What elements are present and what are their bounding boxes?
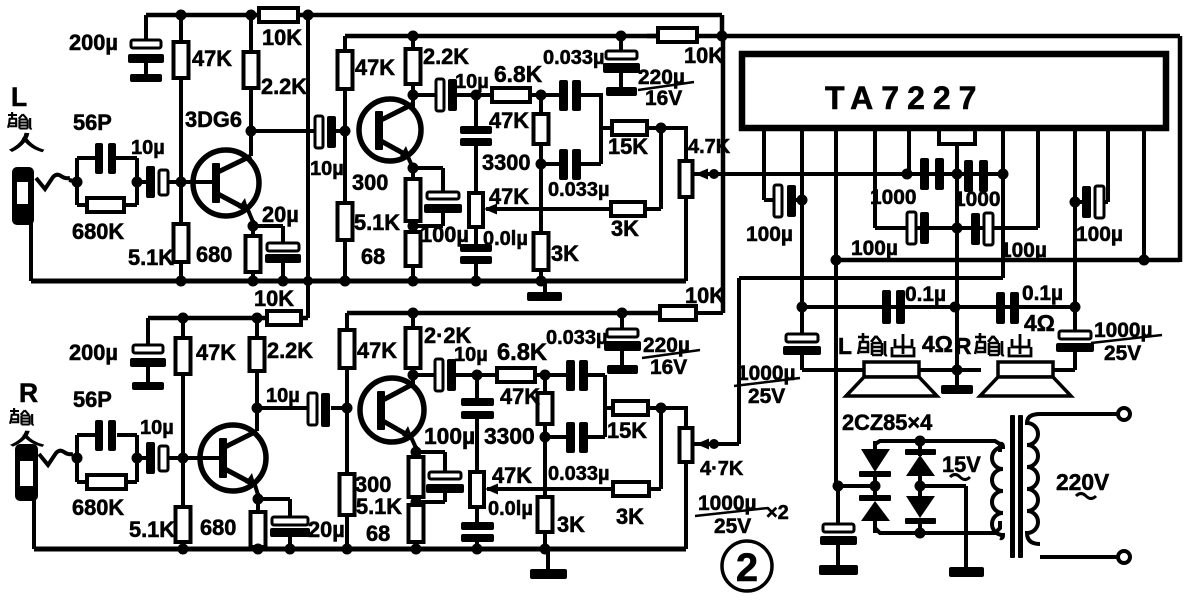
junction emitter node L1 [248, 221, 259, 232]
wire: R input RC left branch [75, 435, 79, 482]
wire: 20u to ground [281, 263, 285, 281]
ground (R 200u) [132, 382, 164, 390]
wire: pot wiper feedback line R [487, 487, 614, 491]
svg-text:200µ: 200µ [69, 30, 118, 55]
resistor 10K (L2 supply) [647, 34, 1180, 39]
svg-text:3K: 3K [551, 241, 579, 266]
resistor 680 (R emitter) [251, 512, 266, 547]
resistor 68 (L2 emitter) [406, 232, 421, 266]
wire: 47K bias column [179, 15, 183, 45]
wire: 3300 column top R [475, 375, 479, 400]
arrow on R output line [696, 439, 709, 450]
svg-text:220V: 220V [1056, 469, 1110, 495]
svg-text:47K: 47K [500, 384, 540, 409]
resistor 47K (R bias upper) [176, 338, 191, 374]
svg-text:20µ: 20µ [262, 202, 299, 227]
wire: 2.2K collector column [249, 15, 253, 52]
svg-text:25V: 25V [714, 515, 751, 538]
svg-text:10K: 10K [262, 25, 302, 50]
wire: 2.2K to collector R2 [411, 368, 415, 387]
terminal top (220V) [1118, 408, 1130, 420]
wire: pot wiper feedback line [486, 207, 612, 211]
capacitor 10u (L2 output) [436, 79, 444, 111]
wire: 15K to output node [647, 126, 688, 130]
wire: 3300 to pot R [475, 419, 479, 474]
junction base node R1 [178, 453, 189, 464]
resistor 300 (L2 emitter) [406, 179, 421, 221]
capacitor 10u (L input) [146, 166, 155, 198]
wire: +V top rail right section corner [1178, 36, 1183, 262]
resistor 15K (L feedback) [612, 121, 647, 135]
capacitor 0.033u no1 (L) [541, 93, 560, 97]
junction bridge + node [833, 481, 844, 492]
svg-text:4·7K: 4·7K [700, 458, 744, 480]
wire: fb caps joining riser [599, 95, 603, 164]
junction node B2 [540, 370, 551, 381]
capacitor 20u (L emitter bypass) [267, 243, 299, 251]
diode D2 [859, 495, 891, 501]
capacitor 0.033u no2 (R) [545, 435, 567, 439]
capacitor 10u (L interstage) [315, 116, 323, 148]
svg-text:680K: 680K [72, 495, 124, 520]
wire: main +V riser [721, 36, 726, 313]
capacitor 10u (R interstage) [308, 393, 317, 425]
junction center/100u pair [952, 223, 963, 234]
svg-text:15K: 15K [608, 134, 648, 159]
svg-text:68: 68 [366, 521, 390, 546]
svg-text:5.1K: 5.1K [356, 494, 402, 519]
junction ground/680 [248, 276, 259, 287]
resistor 4.7K (R output pot) [680, 428, 693, 462]
capacitor 100u (pin1-2) [774, 185, 782, 217]
svg-text:TA7227: TA7227 [825, 80, 984, 116]
svg-text:1000: 1000 [870, 186, 916, 209]
svg-text:100µ: 100µ [424, 423, 475, 449]
wire: 100u link [796, 198, 802, 202]
wire: corner to 4.7K R [684, 408, 688, 430]
wire: 68 to ground R2 [414, 542, 418, 549]
wire: R2 rail to 47K column [345, 313, 349, 332]
svg-text:4Ω: 4Ω [1024, 310, 1055, 336]
wire: 3K to output node riser [645, 207, 661, 211]
wire: 300-68 [411, 221, 415, 234]
wire: base node to 5.1K R2 [345, 408, 349, 476]
svg-text:5.1K: 5.1K [128, 245, 174, 270]
svg-text:L: L [11, 82, 27, 112]
ground (R mid rail) [546, 549, 550, 570]
label shu-chu (L output) [858, 333, 887, 355]
svg-text:10µ: 10µ [310, 158, 344, 180]
resistor 3K (L feedback) [611, 202, 645, 216]
capacitor 200u (R decoupling) [146, 318, 150, 346]
svg-text:300: 300 [355, 472, 391, 497]
svg-text:16V: 16V [645, 87, 682, 110]
resistor 68 (R2 emitter) [409, 505, 424, 542]
junction 300/68 node [408, 221, 419, 232]
resistor 47K (L bias upper) [174, 42, 189, 78]
wire: corner to 4.7K [684, 128, 688, 163]
resistor 6.8K (L feedback in) [492, 88, 530, 102]
wire: squiggle to node [69, 180, 78, 182]
resistor 5.1K (R2 bias lower) [340, 474, 355, 515]
label ru (input L) [11, 133, 44, 151]
capacitor 20u (R emitter bypass) [272, 517, 308, 525]
wire: pin2 [800, 128, 804, 336]
resistor 680K (L) [77, 203, 88, 207]
junction bridge top/right leg [915, 436, 926, 447]
wire: bridge bottom rail [875, 521, 1000, 533]
svg-text:25V: 25V [1104, 342, 1141, 365]
resistor 10K (L supply decoupling) [259, 8, 298, 22]
svg-text:L: L [838, 333, 852, 359]
junction emitter node R2 [411, 447, 422, 458]
svg-text:0.1µ: 0.1µ [905, 283, 946, 306]
junction collector node R2 [408, 370, 419, 381]
wire: 3300 to pot [474, 146, 478, 195]
wire: L output line to TA7227 [692, 172, 1003, 176]
junction Rground/R2 5.1K [342, 544, 353, 555]
wire: pin10 [1106, 128, 1110, 202]
junction R rail/2.2K [252, 313, 263, 324]
wire: emitter to 100u R [416, 450, 445, 454]
wire: 6.8K to node B [530, 93, 545, 97]
wire: node C to 3K [539, 164, 543, 235]
input jack L [12, 167, 34, 225]
ground (center) [955, 370, 959, 386]
wire: 10u to base [168, 180, 213, 184]
ground (L 220u) [606, 87, 637, 96]
svg-text:0.033µ: 0.033µ [548, 463, 610, 485]
junction collector node R1 [252, 403, 263, 414]
wire: Q2 emitter lead [408, 157, 413, 168]
wire: 100u link right [1075, 200, 1082, 204]
svg-text:15V: 15V [942, 452, 981, 477]
node: R stage1 +V rail [148, 316, 308, 321]
wire: R input RC right branch [135, 435, 139, 482]
wiper arrow [484, 204, 497, 215]
capacitor 3300 (R) [461, 398, 494, 406]
resistor 47K (L fb divider) [534, 114, 549, 144]
svg-text:0.033µ: 0.033µ [543, 47, 605, 69]
resistor 4.7K (L output pot) [680, 161, 693, 197]
wire: pin9 [1073, 128, 1077, 333]
transistor Q2 (L) [359, 99, 421, 161]
wire: 100u to 300/68 node R [443, 493, 447, 502]
wire: bridge + link [838, 484, 875, 488]
resistor 47K pot (R) [470, 472, 484, 507]
wire: bridge top rail [875, 441, 1000, 452]
svg-text:47K: 47K [357, 338, 397, 363]
junction rail junction x722 [717, 31, 728, 42]
junction ground/20u [278, 276, 289, 287]
wire: pin7 corner [1036, 128, 1040, 228]
resistor 680 (L emitter) [246, 236, 261, 272]
wire: base node to 5.1K [343, 131, 347, 205]
resistor 47K (R2 bias upper) [340, 330, 355, 368]
wire: rail to 47K column [343, 36, 347, 53]
wire: pin5 [907, 128, 911, 174]
wire: 56P top branch R [77, 433, 96, 437]
wire: 4.7K to ground rail R [684, 462, 688, 549]
junction ground/3K [536, 276, 547, 287]
svg-text:4Ω: 4Ω [922, 331, 953, 357]
svg-text:47K: 47K [192, 46, 232, 71]
junction ground/L2 5.1K [340, 276, 351, 287]
junction 300/68 node R [411, 497, 422, 508]
capacitor 10u (R input) [146, 442, 155, 474]
junction RC output node R [132, 453, 143, 464]
wire: 0.1u line [802, 305, 1075, 309]
diode D3 [918, 441, 922, 456]
svg-text:3K: 3K [616, 504, 644, 529]
resistor 47K pot (L) [469, 193, 483, 227]
wire: speaker line [848, 368, 981, 372]
svg-text:3K: 3K [557, 512, 585, 537]
wire: R input riser to pin [1001, 128, 1005, 278]
wire: 4.7K to ground rail [684, 197, 688, 281]
resistor 3K (R shunt) [538, 497, 553, 532]
junction top rail / 47K [176, 10, 187, 21]
wire: bridge - to ground [920, 484, 966, 488]
svg-text:300: 300 [352, 170, 388, 195]
wire: primary bottom lead [1040, 555, 1118, 559]
resistor 47K (L2 bias upper) [338, 51, 353, 89]
junction base node L1 [176, 177, 187, 188]
terminal bottom (220V) [1118, 551, 1130, 563]
ground (bridge -) [949, 567, 984, 577]
svg-text:100µ: 100µ [1000, 239, 1047, 262]
svg-text:680: 680 [196, 242, 232, 267]
svg-text:10µ: 10µ [455, 71, 489, 93]
wire: pin12 [1142, 128, 1146, 260]
resistor 15K (R feedback) [613, 401, 648, 415]
emitter arrow Q4 [402, 426, 413, 439]
wire: center tap bracket [939, 128, 975, 144]
wire: pin1 [762, 128, 766, 200]
label shu (input L) [8, 112, 32, 129]
emitter arrow Q3 [245, 473, 256, 487]
label shu (input R) [10, 408, 34, 425]
wire: 300-68 R [414, 497, 418, 507]
svg-text:10µ: 10µ [454, 344, 488, 366]
ground (L 200u) [130, 74, 162, 82]
wire: Q1 emitter to 680 [251, 220, 255, 238]
speaker L (4 ohm) [864, 362, 919, 377]
junction input node R [72, 453, 83, 464]
svg-text:2.2K: 2.2K [261, 74, 307, 99]
junction bridge right mid [915, 481, 926, 492]
junction rail/220u [616, 31, 627, 42]
wire: R2 2.2K column [411, 313, 415, 330]
resistor 5.1K (R bias lower) [176, 507, 191, 542]
wire: 10u to base node R2 [331, 406, 349, 410]
svg-text:200µ: 200µ [69, 340, 118, 365]
svg-text:0.033µ: 0.033µ [546, 327, 608, 349]
capacitor filter 1000u [836, 486, 840, 525]
svg-text:10K: 10K [685, 283, 725, 308]
junction riser/ground-rail crossing [303, 276, 313, 286]
svg-text:10µ: 10µ [131, 137, 165, 159]
wire: 680 to ground [251, 272, 255, 281]
svg-text:2: 2 [736, 546, 758, 590]
svg-text:0.0lµ: 0.0lµ [483, 228, 528, 250]
wire: 15K to output node R [648, 406, 688, 410]
svg-text:47K: 47K [355, 55, 395, 80]
wire: 10u to node A [457, 93, 492, 97]
junction Rground/68 [411, 544, 422, 555]
resistor 6.8K (R feedback in) [497, 368, 535, 382]
svg-text:47K: 47K [196, 340, 236, 365]
resistor 2.2K (L1 collector) [244, 52, 259, 88]
junction emitter node L2 [408, 163, 419, 174]
junction R riser/1000 line [998, 169, 1009, 180]
wire: input RC left branch [75, 158, 79, 205]
resistor 680K (R) [77, 480, 88, 484]
wire: 47K to base node [179, 78, 183, 182]
transistor Q3 (R) [200, 425, 266, 491]
wire: 68 to ground [411, 266, 415, 281]
wire: Q4 emitter lead [411, 437, 416, 448]
junction ground/68 [408, 276, 419, 287]
capacitor 3300 (L) [460, 126, 492, 134]
wire: 47K to base node L2 [343, 89, 347, 131]
wire: 10u to base node [336, 129, 347, 133]
resistor 2.2K (L2 collector) [406, 49, 421, 84]
wire: 47K to node C2 [543, 424, 547, 439]
wire: riser to 15K R [605, 406, 614, 410]
junction L line dot [709, 169, 719, 179]
emitter arrow Q2 [400, 146, 411, 159]
wire: 3K to output node riser R [649, 487, 661, 491]
ground (filter cap) [819, 565, 858, 575]
svg-text:47K: 47K [492, 463, 532, 488]
wire: 10u to base R [168, 456, 220, 460]
capacitor 220u 16V (R) [620, 313, 624, 330]
capacitor 0.033u no2 (L) [541, 162, 560, 166]
op-amp U1 TA7227 box [742, 54, 1166, 128]
wire: R2 output [413, 373, 436, 377]
wire: 0.01u to ground R [475, 542, 479, 549]
svg-text:2.2K: 2.2K [267, 338, 313, 363]
transformer T1 secondary [992, 444, 1003, 538]
wire: input RC right branch [135, 158, 139, 205]
resistor 2.2K (R1 collector) [250, 338, 265, 371]
wire: pin4 corner line 100u pair [875, 226, 1038, 230]
wire: pin4 [873, 128, 877, 228]
junction 0.1 line/pin9 [1070, 302, 1081, 313]
wire: D1-D2 link [873, 472, 877, 500]
junction Rground/20u [285, 544, 296, 555]
wire: 3300 column top [474, 95, 478, 128]
junction top rail / riser [303, 10, 314, 21]
resistor 5.1K (L bias lower) [174, 224, 189, 262]
wire: 3K to ground R [543, 532, 547, 549]
wire: emitter to 100u [413, 166, 443, 170]
wire: Q3 collector lead [255, 408, 259, 431]
wire: 6.8K to node B2 [535, 373, 548, 377]
resistor 2.2K (R2 collector) [406, 328, 421, 368]
label circled 2 [722, 541, 772, 591]
svg-text:680K: 680K [72, 219, 124, 244]
node: L ground rail [31, 279, 686, 284]
wire: pot to 0.01u R [475, 507, 479, 524]
wire: emitter to 20u R [258, 497, 290, 501]
wire: 10u to node A2 [456, 373, 497, 377]
emitter arrow Q1 [238, 198, 249, 212]
junction bus/main riser [831, 255, 842, 266]
wire: R 2.2K column [255, 318, 259, 340]
wire: L2 output [413, 93, 436, 97]
junction node A2 [472, 370, 483, 381]
junction RC output node [132, 177, 143, 188]
svg-text:100µ: 100µ [746, 223, 793, 246]
node: R ground rail [34, 547, 686, 552]
input jack R [15, 444, 38, 501]
svg-text:20µ: 20µ [308, 517, 345, 542]
svg-text:100µ: 100µ [851, 237, 898, 260]
junction R2 rail/2.2K [408, 308, 419, 319]
capacitor 100u (right outer) [1082, 186, 1091, 218]
diode D1 [861, 449, 890, 472]
wire: jack squiggle R [39, 451, 73, 465]
wire: 10K to riser [696, 311, 723, 315]
wire: 3K to ground [539, 270, 543, 281]
transformer T1 core [1010, 415, 1015, 558]
junction node C2 [540, 432, 551, 443]
resistor 3K (L shunt) [534, 233, 549, 270]
wire: R 47K column [181, 318, 185, 340]
wire: pin3 main +V riser [834, 128, 838, 488]
junction center/speaker line [952, 365, 963, 376]
transistor Q1 3DG6 (L) [193, 150, 259, 216]
junction pin5/1000 line [902, 169, 913, 180]
junction rail/2.2K L2 [408, 31, 419, 42]
wire: node C2 to 3K [543, 437, 547, 499]
diode D4 [906, 496, 935, 518]
svg-text:5.1K: 5.1K [129, 517, 175, 542]
junction Rground/0.01u [472, 544, 483, 555]
arrow on L output line [695, 169, 708, 180]
speaker R (4 ohm) [998, 362, 1053, 377]
svg-text:2CZ85×4: 2CZ85×4 [842, 410, 932, 435]
ground (R 220u) [607, 365, 638, 374]
svg-text:10K: 10K [684, 43, 724, 68]
node: R stage2 +V rail [347, 311, 660, 316]
label ru (input R) [11, 431, 43, 446]
svg-text:R: R [19, 378, 38, 408]
wire: 2.2K to collector node [249, 88, 253, 133]
wire: 47K to base node R2 [345, 368, 349, 409]
junction ground/5.1K [176, 276, 187, 287]
wire: 5.1K to ground R2 [345, 515, 349, 549]
junction base node L2 [340, 126, 351, 137]
junction R output node [656, 403, 667, 414]
capacitor 1000 (left) [920, 158, 929, 190]
wire: 2.2K column L2 [411, 36, 415, 52]
junction center/0.1 line [950, 302, 961, 313]
svg-text:16V: 16V [650, 356, 687, 379]
wire: 5.1K to ground R [181, 542, 185, 549]
wire: base node to 5.1K R [181, 458, 185, 509]
junction input node L [72, 177, 83, 188]
junction pin2/100u [797, 195, 808, 206]
wire: 20u to ground R [288, 537, 292, 549]
wire: fb caps joining riser R [603, 375, 607, 437]
wire: 56P top branch [77, 156, 96, 160]
svg-text:56P: 56P [73, 110, 112, 135]
junction top rail / 2.2K [246, 10, 257, 21]
wire: coupling from Q3 to R2 [257, 406, 311, 410]
